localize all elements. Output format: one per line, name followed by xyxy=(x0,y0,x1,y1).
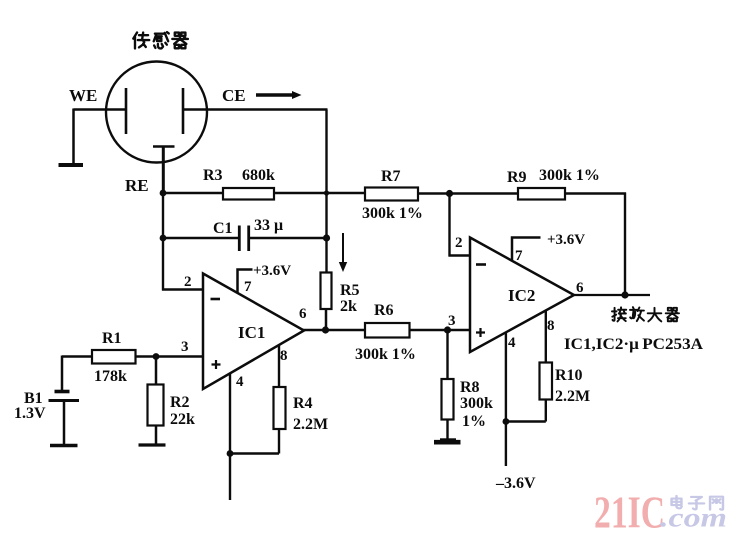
svg-text:IC2: IC2 xyxy=(508,286,535,305)
svg-text:IC1,IC2·μ PC253A: IC1,IC2·μ PC253A xyxy=(564,336,704,353)
resistor R9 xyxy=(518,188,565,200)
node R7-R9 pin2 xyxy=(446,190,453,197)
svg-text:300k 1%: 300k 1% xyxy=(539,167,600,184)
svg-text:C1: C1 xyxy=(213,220,233,237)
wire node to IC2 pin2 xyxy=(449,194,471,257)
wire IC1 pin8 to R4 xyxy=(278,345,280,387)
svg-text:6: 6 xyxy=(299,306,307,322)
wire C1 row right xyxy=(250,237,327,240)
watermark 电子网 xyxy=(672,496,723,510)
node pin4-R4 xyxy=(227,450,234,457)
resistor R10 xyxy=(540,363,553,400)
wire R5 bottom stem xyxy=(325,309,328,330)
node R6-R8 pin3 xyxy=(444,326,451,333)
IC1 pin7 supply bracket xyxy=(238,270,253,294)
svg-text:300k: 300k xyxy=(460,395,493,412)
svg-text:+3.6V: +3.6V xyxy=(253,263,291,279)
svg-text:2: 2 xyxy=(455,235,463,251)
node R1-R2 pin3 xyxy=(153,353,160,360)
svg-text:R1: R1 xyxy=(102,330,122,347)
wire R7 to node pin2 and on to R9 xyxy=(418,192,518,195)
wire R2 bottom xyxy=(155,426,158,445)
wire IC1 output xyxy=(303,329,365,332)
svg-text:4: 4 xyxy=(236,374,244,390)
svg-text:8: 8 xyxy=(280,348,288,364)
op-amp IC2 xyxy=(470,238,574,353)
resistor R8 xyxy=(442,379,454,420)
svg-text:R10: R10 xyxy=(555,367,583,384)
node RE-C1 xyxy=(160,235,167,242)
wire R8 top xyxy=(446,330,448,379)
label output 接放大器 xyxy=(612,307,679,321)
svg-text:2k: 2k xyxy=(340,298,357,315)
op-amp IC1 xyxy=(203,274,304,390)
svg-text:1%: 1% xyxy=(462,413,486,430)
svg-text:6: 6 xyxy=(576,280,584,296)
wire pin4 to R10 bottom xyxy=(505,400,546,422)
svg-text:7: 7 xyxy=(244,279,252,295)
wire WE lead xyxy=(74,109,127,165)
wire IC1 pin4 down xyxy=(229,374,231,501)
resistor R2 xyxy=(148,385,164,426)
resistor R3 xyxy=(223,188,274,200)
svg-text:2: 2 xyxy=(184,274,192,290)
wire R3 to R7 xyxy=(274,192,365,195)
resistor R5 xyxy=(321,273,332,310)
svg-text:R8: R8 xyxy=(460,379,480,396)
wire IC2 pin8 to R10 xyxy=(545,311,547,363)
IC2 minus sign xyxy=(476,263,486,266)
svg-text:.com: .com xyxy=(660,503,727,533)
sensor RE electrode xyxy=(153,147,175,194)
svg-text:680k: 680k xyxy=(242,167,275,184)
label sensor 传感器 xyxy=(133,32,188,48)
wire pin3 row IC1 xyxy=(62,355,203,358)
IC2 pin7 supply bracket xyxy=(512,238,541,262)
svg-text:300k 1%: 300k 1% xyxy=(362,205,423,222)
wire node RE row to R3 xyxy=(163,192,223,195)
wire CE lead to right column xyxy=(183,110,328,273)
wire pin4 to R4 bottom xyxy=(229,429,279,454)
svg-text:R4: R4 xyxy=(293,395,313,412)
node pin4-R10 xyxy=(503,418,510,425)
svg-text:4: 4 xyxy=(508,335,516,351)
svg-text:R5: R5 xyxy=(340,282,360,299)
wire R8 bottom xyxy=(446,420,448,442)
ground WE xyxy=(59,163,84,167)
svg-text:178k: 178k xyxy=(94,368,127,385)
svg-text:2.2M: 2.2M xyxy=(293,416,328,433)
svg-text:+3.6V: +3.6V xyxy=(547,232,585,248)
node IC2 output xyxy=(621,291,628,298)
wire down to battery xyxy=(61,356,64,392)
svg-text:2.2M: 2.2M xyxy=(555,388,590,405)
svg-text:8: 8 xyxy=(547,318,555,334)
capacitor C1 xyxy=(239,226,248,252)
svg-text:21IC: 21IC xyxy=(594,488,665,538)
svg-text:300k 1%: 300k 1% xyxy=(355,346,416,363)
node IC1 output xyxy=(322,326,329,333)
sensor WE electrode xyxy=(125,88,128,134)
sensor body circle xyxy=(106,62,207,163)
wire R6 to IC2 pin3 xyxy=(410,329,471,332)
svg-text:22k: 22k xyxy=(170,411,195,428)
wire IC2 output xyxy=(573,294,650,296)
IC1 minus sign xyxy=(211,298,221,301)
svg-text:WE: WE xyxy=(69,86,97,105)
wire R2 top xyxy=(155,357,158,385)
sensor CE electrode xyxy=(182,88,185,134)
svg-text:R2: R2 xyxy=(170,394,190,411)
wire C1 row left xyxy=(163,237,238,240)
svg-text:CE: CE xyxy=(222,86,246,105)
svg-text:3: 3 xyxy=(448,313,456,329)
resistor R1 xyxy=(92,350,136,364)
svg-text:R3: R3 xyxy=(203,167,223,184)
IC2 plus sign xyxy=(476,328,485,337)
svg-text:R9: R9 xyxy=(507,169,527,186)
node C1-right xyxy=(323,234,330,241)
battery B1 xyxy=(55,390,70,394)
resistor R6 xyxy=(365,323,410,338)
svg-text:RE: RE xyxy=(125,176,149,195)
IC1 plus sign xyxy=(212,360,221,369)
svg-text:–3.6V: –3.6V xyxy=(495,475,536,492)
svg-text:R7: R7 xyxy=(381,168,401,185)
ground B1 xyxy=(50,444,78,448)
wire R9 to right corner xyxy=(565,193,626,296)
svg-text:R6: R6 xyxy=(374,302,394,319)
arrow current R5 xyxy=(342,233,344,263)
ground R8 xyxy=(434,440,461,445)
node CE column crossing xyxy=(324,190,329,195)
svg-text:IC1: IC1 xyxy=(238,323,265,342)
svg-text:33 μ: 33 μ xyxy=(254,217,283,234)
resistor R4 xyxy=(274,387,286,429)
svg-text:1.3V: 1.3V xyxy=(14,405,46,422)
ground R2 xyxy=(139,443,166,446)
node RE-R3 xyxy=(160,190,167,197)
wire RE vertical to IC1 pin2 xyxy=(162,147,203,291)
arrow CE direction xyxy=(256,93,293,96)
svg-text:3: 3 xyxy=(181,339,189,355)
resistor R7 xyxy=(365,188,418,201)
svg-text:7: 7 xyxy=(515,248,523,264)
wire IC2 pin4 down xyxy=(505,333,507,467)
